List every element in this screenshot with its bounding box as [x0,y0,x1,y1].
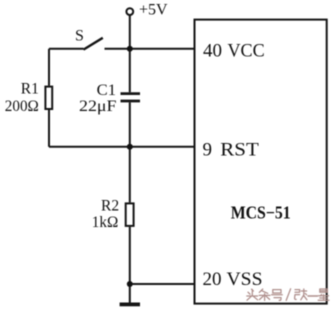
svg-text:9: 9 [203,140,213,161]
svg-text:RST: RST [220,140,259,161]
svg-text:R2: R2 [101,197,119,214]
svg-text:C1: C1 [97,82,116,99]
svg-text:+5V: +5V [139,2,168,19]
svg-text:R1: R1 [21,81,39,98]
svg-text:22μF: 22μF [79,98,117,115]
svg-text:20: 20 [203,269,222,290]
svg-text:VCC: VCC [228,41,265,62]
svg-text:VSS: VSS [227,269,263,290]
svg-text:200Ω: 200Ω [5,98,39,115]
svg-text:40: 40 [203,41,222,62]
svg-text:S: S [75,28,84,45]
svg-text:1kΩ: 1kΩ [92,214,119,231]
svg-text:MCS−51: MCS−51 [231,203,291,223]
